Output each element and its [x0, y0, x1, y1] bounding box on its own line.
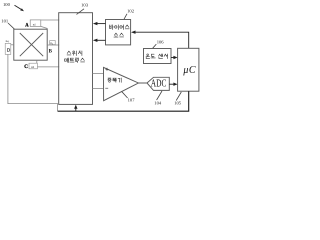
- svg-text:D: D: [7, 48, 10, 53]
- wire uC to bias with arrow: [131, 31, 189, 49]
- stub D to bridge: [11, 44, 14, 46]
- svg-text:102: 102: [127, 9, 135, 14]
- leader 103: [77, 9, 85, 15]
- uC 105 box: [178, 48, 199, 91]
- terminal box nB: [50, 41, 56, 45]
- svg-text:105: 105: [174, 100, 182, 105]
- arrow temp to uC: [171, 56, 178, 59]
- arrow ADC to uC: [169, 83, 177, 86]
- wire D down: [8, 54, 58, 111]
- ADC 104 pentagon: [147, 77, 169, 90]
- text 소스: [114, 33, 124, 37]
- text 증폭기: [108, 78, 122, 82]
- bias source 102 box: [106, 20, 131, 45]
- text 온도 센서: [146, 54, 168, 59]
- text 매트릭스: [65, 58, 85, 63]
- text 스위치: [67, 51, 82, 56]
- svg-text:101: 101: [1, 18, 9, 23]
- svg-text:100: 100: [3, 2, 11, 7]
- stub C from bridge: [36, 60, 38, 63]
- leader 106: [153, 44, 157, 48]
- wire C to matrix: [37, 66, 59, 68]
- branch arrow into matrix bottom: [74, 105, 77, 112]
- leader 104: [157, 91, 162, 100]
- arrow for label 100: [15, 5, 25, 11]
- wire B to matrix: [47, 44, 59, 46]
- svg-text:B: B: [49, 50, 52, 55]
- svg-text:103: 103: [81, 3, 89, 8]
- svg-text:ADC: ADC: [151, 79, 167, 90]
- bias to matrix arrow 1: [93, 22, 106, 25]
- feedback rail wire: [58, 91, 189, 111]
- temperature sensor 106 box: [144, 49, 172, 64]
- wire A to matrix: [41, 19, 59, 21]
- svg-text:μ: μ: [182, 65, 188, 76]
- wire amp to ADC: [138, 82, 147, 84]
- leader 107: [122, 91, 128, 98]
- text 바이어스: [110, 25, 130, 30]
- terminal box nA: [30, 20, 41, 27]
- leader 101: [8, 23, 14, 29]
- switch matrix 103 box: [59, 13, 93, 105]
- terminal box D: [5, 43, 11, 54]
- amp input stub 2: [93, 88, 104, 90]
- svg-text:106: 106: [157, 40, 165, 45]
- plus mark: [106, 68, 109, 71]
- leader 102: [124, 14, 127, 19]
- amp input stub 1: [93, 73, 104, 75]
- connector A to bridge corner: [41, 26, 47, 29]
- svg-text:C: C: [24, 65, 28, 70]
- svg-text:C: C: [189, 65, 196, 76]
- bridge X diagonals: [20, 33, 43, 56]
- svg-text:104: 104: [154, 100, 162, 105]
- op-amp 107 triangle: [104, 67, 139, 100]
- leader 105: [176, 92, 181, 101]
- minus mark: [105, 87, 108, 89]
- bias to matrix arrow 2: [93, 39, 106, 42]
- terminal box nC: [29, 63, 37, 69]
- svg-text:107: 107: [128, 97, 136, 102]
- bridge 101 box: [14, 29, 47, 60]
